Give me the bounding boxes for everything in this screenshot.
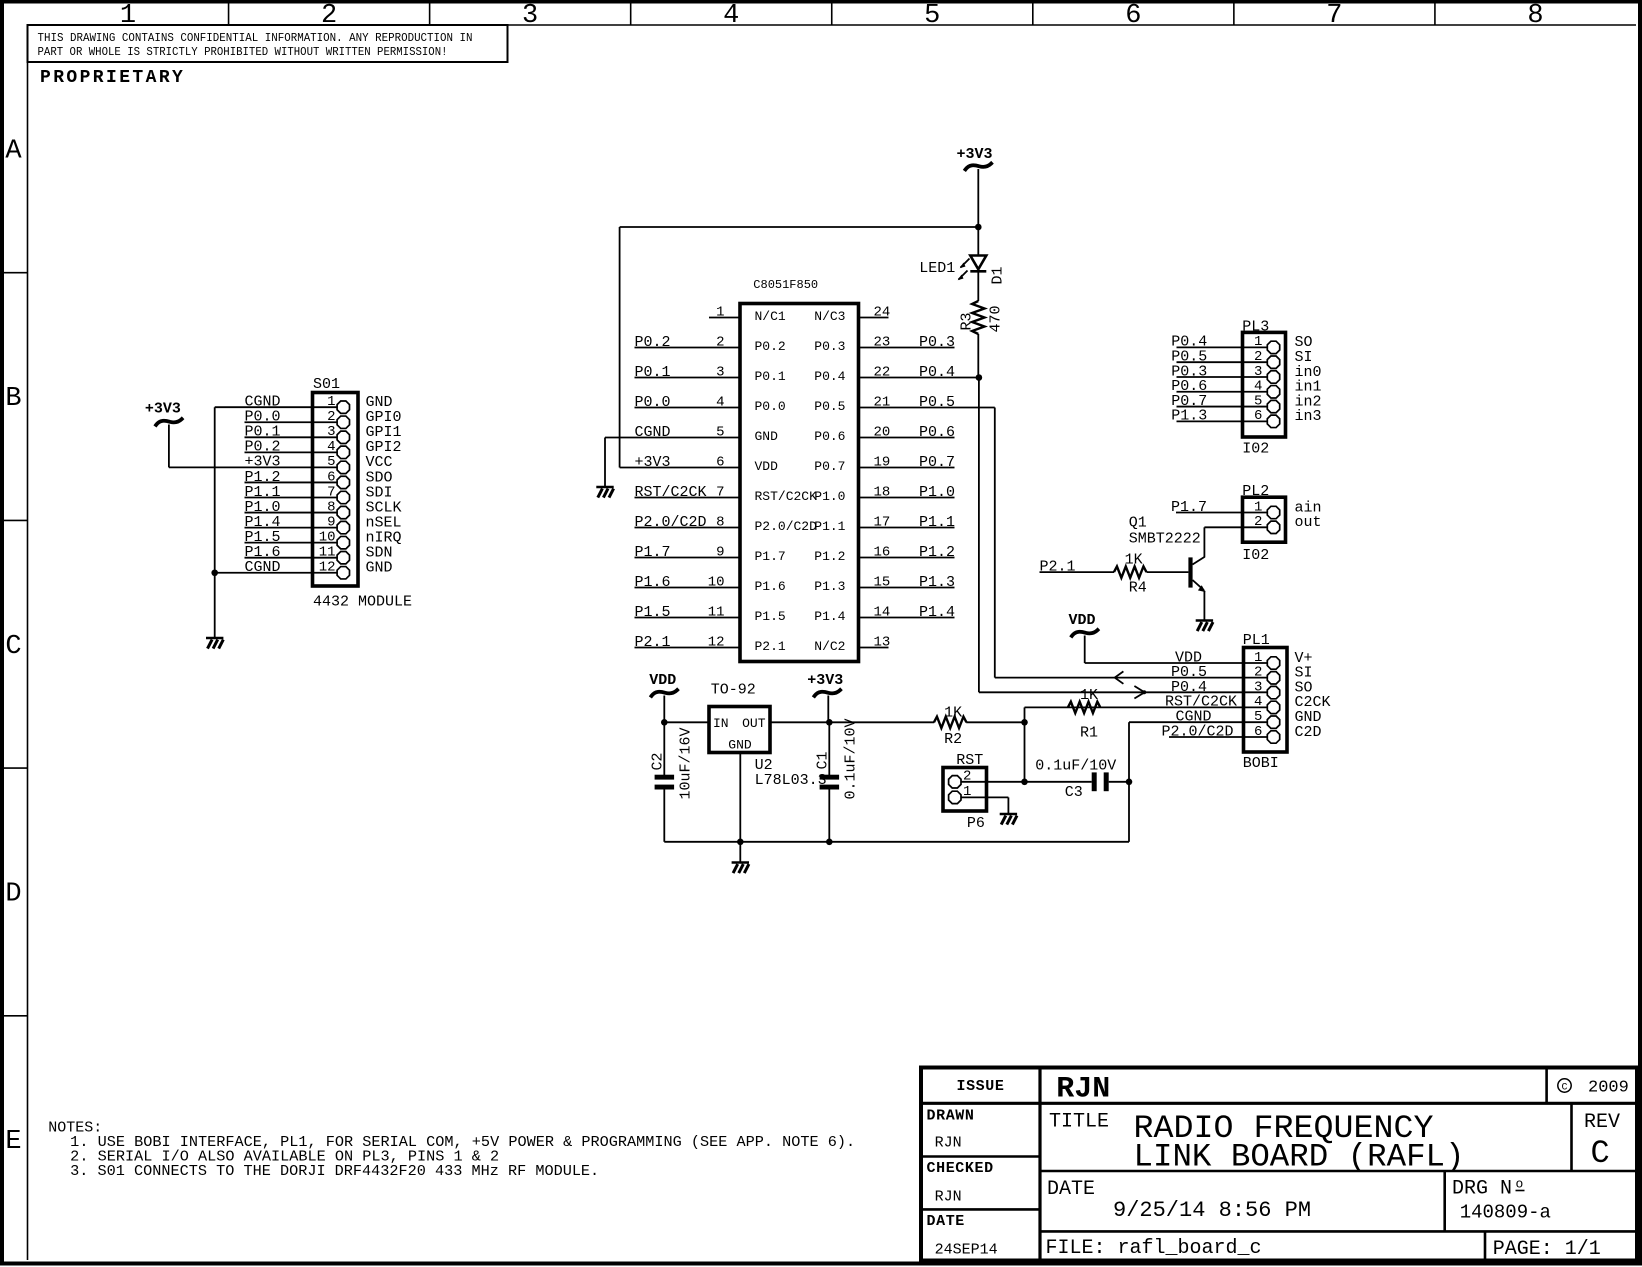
column divider tick 4 [831, 4, 833, 26]
svg-text:P6: P6 [967, 815, 985, 832]
U1 pin 13 labels [814, 634, 890, 654]
wire CGND vertical (S01) [214, 407, 216, 638]
column divider tick 7 [1434, 4, 1436, 26]
S01 pin 10 [245, 529, 402, 549]
svg-text:P0.7: P0.7 [814, 459, 845, 474]
svg-text:1K: 1K [944, 704, 962, 721]
svg-text:P2.1: P2.1 [755, 639, 786, 654]
svg-text:P0.5: P0.5 [919, 394, 955, 411]
svg-text:IN: IN [713, 716, 729, 731]
PL1 pin 3 [1171, 679, 1313, 699]
svg-text:R3: R3 [959, 312, 976, 330]
svg-text:PART OR WHOLE IS STRICTLY PROH: PART OR WHOLE IS STRICTLY PROHIBITED WIT… [38, 45, 448, 59]
S01 pin 12 [245, 559, 393, 579]
DATE cell (drawing) [1047, 1178, 1311, 1223]
node CGND junction (S01 pin12) [211, 569, 218, 576]
wire RST/C2CK net to PL1 pin4 [1025, 706, 1244, 708]
column divider tick 3 [630, 4, 632, 26]
svg-text:3: 3 [1254, 364, 1262, 380]
svg-text:P1.7: P1.7 [635, 544, 671, 561]
column divider tick 6 [1233, 4, 1235, 26]
svg-text:+3V3: +3V3 [957, 146, 993, 163]
svg-text:RJN: RJN [1056, 1073, 1110, 1107]
svg-text:3: 3 [716, 364, 724, 380]
wire U1 pin 4 net P0.0 [635, 407, 741, 409]
S01 pin 9 [245, 514, 402, 534]
svg-text:GND: GND [755, 429, 779, 444]
U1 pin 20 labels [814, 424, 955, 444]
svg-text:5: 5 [924, 1, 940, 31]
svg-text:2: 2 [963, 769, 971, 785]
svg-text:P0.2: P0.2 [635, 334, 671, 351]
PL1 pin 2 [1171, 664, 1313, 684]
svg-text:P1.2: P1.2 [919, 544, 955, 561]
svg-text:P1.3: P1.3 [1171, 408, 1207, 425]
svg-text:11: 11 [319, 545, 336, 561]
svg-text:E: E [5, 1127, 21, 1157]
wire U1 pin 18 net P1.0 [859, 497, 955, 499]
wire R4 to Q1 base [1147, 571, 1189, 573]
resistor R1 1K [1068, 687, 1100, 742]
wire PL3 pin 3 net P0.3 [1177, 376, 1269, 378]
svg-text:TO-92: TO-92 [711, 682, 756, 699]
svg-text:2: 2 [321, 1, 337, 31]
svg-text:10: 10 [319, 529, 336, 545]
svg-text:P0.1: P0.1 [755, 369, 786, 384]
title block outer border [921, 1068, 1637, 1261]
wire stub U1 pin 24 [859, 317, 889, 319]
svg-text:P1.4: P1.4 [919, 604, 955, 621]
wire PL3 pin 6 net P1.3 [1177, 420, 1269, 422]
wire U1 pin 9 net P1.7 [635, 557, 741, 559]
DRG No cell [1452, 1177, 1551, 1224]
DRAWN cell [927, 1108, 975, 1152]
wire S01 pin 6 net P1.2 [245, 481, 338, 483]
U1 pin 6 labels [635, 454, 779, 474]
wire stub U1 pin 13 [859, 647, 889, 649]
svg-text:N/C3: N/C3 [814, 309, 845, 324]
title block grid lines [921, 1068, 1637, 1261]
U1 pin 11 labels [635, 604, 786, 624]
svg-text:5: 5 [327, 454, 335, 470]
wire CGND to PL1 pin5 [1129, 721, 1244, 723]
svg-text:6: 6 [1125, 1, 1141, 31]
svg-text:REV: REV [1584, 1111, 1620, 1134]
PL2 pin 1 [1171, 499, 1322, 519]
U1 pin 19 labels [814, 454, 955, 474]
wire S01 pin1 CGND [215, 406, 337, 408]
arrow left on P0.5 wire [1115, 671, 1124, 683]
svg-text:DRG N: DRG N [1452, 1178, 1512, 1201]
wire P0.5 vertical to PL1 [994, 408, 996, 678]
wire +3V3 to LED [977, 227, 979, 256]
U1 pin 18 labels [814, 484, 955, 504]
wire C2 bottom to rail [663, 790, 665, 842]
svg-text:C8051F850: C8051F850 [753, 278, 818, 292]
S01 pin 4 [245, 439, 402, 459]
svg-text:7: 7 [1326, 1, 1342, 31]
wire P6 pin1 to ground [955, 797, 1009, 813]
S01 pin 1 [245, 394, 393, 414]
connector PL1 body [1243, 632, 1287, 752]
wire U1 pin 8 net P2.0/C2D [635, 527, 741, 529]
VDD power symbol (PL1) [1069, 612, 1098, 663]
svg-text:in3: in3 [1295, 408, 1322, 425]
wire P0.4 horizontal to PL1 pin3 [979, 691, 1244, 693]
svg-text:FILE: rafl_board_c: FILE: rafl_board_c [1046, 1237, 1262, 1260]
PL1 pin 1 [1175, 649, 1313, 669]
wire PL2 pin2 from Q1 [1204, 526, 1268, 528]
svg-text:6: 6 [327, 469, 335, 485]
connector S01 body [313, 376, 359, 586]
svg-text:15: 15 [874, 574, 891, 590]
inner frame line right of row letters [27, 25, 29, 1260]
svg-text:P1.1: P1.1 [814, 519, 845, 534]
wire S01 pin 8 net P1.0 [245, 512, 338, 514]
S01 pin 7 [245, 484, 393, 504]
PL3 pin 2 [1171, 348, 1312, 368]
resistor R4 1K [1114, 551, 1147, 596]
svg-text:C: C [1591, 1135, 1610, 1172]
PL3 pin 3 [1171, 363, 1321, 383]
inner frame line below column numbers [28, 24, 1637, 26]
row divider tick 4 [4, 1015, 28, 1017]
wire PL2 pin1 net P1.7 [1176, 512, 1268, 514]
svg-text:19: 19 [874, 454, 891, 470]
node +3V3 junction [975, 224, 982, 231]
PL1 pin 4 [1165, 694, 1331, 714]
svg-text:22: 22 [874, 364, 891, 380]
svg-text:B: B [5, 384, 21, 414]
svg-text:P0.4: P0.4 [919, 364, 955, 381]
PL1 pin 6 [1161, 723, 1321, 743]
wire C1 vertical top [828, 722, 830, 775]
svg-text:12: 12 [708, 634, 725, 650]
svg-text:3. S01 CONNECTS TO THE DORJI D: 3. S01 CONNECTS TO THE DORJI DRF4432F20 … [70, 1163, 599, 1180]
capacitor C2 10uF/16V [650, 727, 695, 799]
wire U1 pin 14 net P1.4 [859, 617, 955, 619]
wire +3V3 to S01 pin5 [169, 466, 337, 468]
svg-text:7: 7 [716, 484, 724, 500]
svg-text:24SEP14: 24SEP14 [935, 1242, 998, 1259]
svg-text:8: 8 [327, 499, 335, 515]
wire P0.4 vertical to PL1 [978, 378, 980, 693]
svg-text:P0.1: P0.1 [635, 364, 671, 381]
svg-text:P2.1: P2.1 [1040, 558, 1076, 575]
wire U1 pin 2 net P0.2 [635, 347, 741, 349]
svg-text:140809-a: 140809-a [1460, 1202, 1551, 1224]
svg-text:A: A [5, 136, 22, 166]
svg-text:RJN: RJN [935, 1135, 962, 1152]
connector PL2 body [1242, 483, 1285, 542]
U1 pin 1 labels [716, 304, 786, 324]
svg-text:R2: R2 [944, 731, 962, 748]
node P0.4 junction [976, 374, 983, 381]
svg-text:2: 2 [1254, 349, 1262, 365]
svg-text:OUT: OUT [742, 716, 766, 731]
wire P2.1 to R4 [1040, 571, 1115, 573]
wire VDD to U2 IN [664, 721, 709, 723]
svg-text:N/C2: N/C2 [814, 639, 845, 654]
wire PL3 pin 2 net P0.5 [1177, 361, 1269, 363]
svg-text:11: 11 [708, 604, 725, 620]
wire U1 pin 6 +3V3 [620, 467, 740, 469]
ground (S01) [206, 638, 223, 649]
bottom ground rail [664, 841, 1129, 843]
svg-text:P2.0/C2D: P2.0/C2D [635, 514, 707, 531]
svg-text:VDD: VDD [649, 672, 676, 689]
S01 pin 3 [245, 424, 402, 444]
notes text [48, 1120, 855, 1180]
svg-text:o: o [1516, 1177, 1524, 1192]
svg-text:21: 21 [874, 394, 891, 410]
svg-text:14: 14 [874, 604, 891, 620]
U1 pin 17 labels [814, 514, 955, 534]
resistor R2 1K [934, 704, 967, 748]
wire U1 pin 12 net P2.1 [635, 647, 741, 649]
node U2 GND junction [737, 839, 744, 846]
svg-text:3: 3 [327, 424, 335, 440]
wire R3 to P0.4 [977, 334, 979, 378]
svg-text:16: 16 [874, 544, 891, 560]
svg-text:7: 7 [327, 484, 335, 500]
svg-text:GND: GND [366, 560, 393, 577]
wire P6 pin2 to RST node [955, 781, 1025, 783]
VDD power symbol (U2) [649, 672, 677, 722]
PL3 pin 4 [1171, 378, 1321, 398]
svg-text:4432 MODULE: 4432 MODULE [313, 594, 412, 611]
wire S01 pin 11 net P1.6 [245, 557, 338, 559]
svg-text:P1.0: P1.0 [814, 489, 845, 504]
svg-text:1: 1 [963, 784, 971, 800]
CHECKED cell [927, 1160, 994, 1205]
svg-text:4: 4 [1254, 379, 1262, 395]
P6 pin 1 [949, 784, 972, 803]
U1 pin 2 labels [635, 334, 786, 354]
svg-text:DATE: DATE [927, 1213, 965, 1230]
wire U1 pin 7 net RST/C2CK [635, 497, 741, 499]
svg-text:D: D [5, 879, 21, 909]
svg-text:D1: D1 [990, 266, 1007, 284]
svg-text:2: 2 [1254, 514, 1262, 530]
row divider tick 1 [4, 272, 28, 274]
svg-text:P1.3: P1.3 [919, 574, 955, 591]
node RST junction (C3) [1021, 779, 1028, 786]
svg-text:P1.6: P1.6 [635, 574, 671, 591]
svg-text:P0.0: P0.0 [755, 399, 786, 414]
svg-text:9: 9 [327, 514, 335, 530]
svg-text:RJN: RJN [935, 1188, 962, 1205]
wire PL3 pin 4 net P0.6 [1177, 391, 1269, 393]
svg-text:I02: I02 [1242, 441, 1269, 458]
wire C1 bottom to rail [828, 790, 830, 842]
wire U1 pin 22 P0.4 [859, 377, 979, 379]
node RST junction (R2) [1021, 719, 1028, 726]
P6 pin 2 [949, 769, 972, 788]
svg-text:+3V3: +3V3 [807, 672, 843, 689]
transistor Q1 SMBT2222 [1129, 515, 1206, 620]
U1 pin 12 labels [635, 634, 786, 654]
wire P0.5 horizontal to PL1 pin2 [995, 677, 1244, 679]
svg-text:2009: 2009 [1588, 1079, 1629, 1098]
svg-text:1: 1 [1254, 334, 1262, 350]
svg-text:12: 12 [319, 560, 336, 576]
svg-text:1K: 1K [1080, 687, 1098, 704]
svg-text:1: 1 [1254, 499, 1262, 515]
copyright 2009 [1558, 1079, 1629, 1098]
svg-text:+3V3: +3V3 [145, 401, 181, 418]
U1 pin 16 labels [814, 544, 955, 564]
svg-text:1: 1 [120, 1, 136, 31]
svg-text:10: 10 [708, 574, 725, 590]
svg-text:5: 5 [1254, 393, 1262, 409]
U1 pin 24 labels [814, 304, 890, 324]
svg-text:C: C [1561, 1082, 1567, 1093]
wire U1 pin 11 net P1.5 [635, 617, 741, 619]
svg-text:C3: C3 [1065, 784, 1083, 801]
node C1 rail junction [826, 839, 833, 846]
connector PL3 body [1242, 319, 1285, 438]
svg-text:1K: 1K [1125, 551, 1143, 568]
svg-text:4: 4 [723, 1, 739, 31]
svg-text:R1: R1 [1080, 725, 1098, 742]
svg-text:VDD: VDD [1069, 612, 1096, 629]
svg-text:470: 470 [988, 305, 1005, 332]
svg-text:0.1uF/10V: 0.1uF/10V [843, 718, 860, 799]
svg-text:17: 17 [874, 514, 891, 530]
svg-text:P0.3: P0.3 [814, 339, 845, 354]
wire S01 pin 3 net P0.1 [245, 436, 338, 438]
svg-text:I02: I02 [1242, 547, 1269, 564]
node VDD junction (C2/U2) [661, 719, 668, 726]
U1 pin 14 labels [814, 604, 955, 624]
wire RST vertical [1024, 707, 1026, 781]
svg-text:P1.5: P1.5 [635, 604, 671, 621]
wire pad stubs PL1 [1244, 663, 1269, 737]
TITLE cell [1049, 1110, 1465, 1176]
svg-text:DRAWN: DRAWN [927, 1108, 975, 1125]
svg-text:P0.3: P0.3 [919, 334, 955, 351]
svg-text:P0.6: P0.6 [919, 424, 955, 441]
node +3V3 junction (C1) [826, 719, 833, 726]
U1 pin 3 labels [635, 364, 786, 384]
svg-text:CHECKED: CHECKED [927, 1160, 994, 1177]
wire U1 pin 23 net P0.3 [859, 347, 955, 349]
wire U1 pin 15 net P1.3 [859, 587, 955, 589]
svg-text:out: out [1295, 514, 1322, 531]
regulator U2 L78L03.3 body [709, 682, 827, 790]
U1 pin 5 labels [635, 424, 779, 444]
wire U1 pin 20 net P0.6 [859, 437, 955, 439]
svg-text:C2D: C2D [1295, 724, 1322, 741]
svg-text:18: 18 [874, 484, 891, 500]
svg-text:P0.7: P0.7 [919, 454, 955, 471]
S01 pin 5 [245, 454, 393, 474]
wire U1 pin 3 net P0.1 [635, 377, 741, 379]
node CGND junction (C3) [1126, 779, 1133, 786]
S01 pin 8 [245, 499, 402, 519]
svg-text:TITLE: TITLE [1049, 1111, 1109, 1134]
U1 pin 4 labels [635, 394, 786, 414]
svg-text:8: 8 [1527, 1, 1543, 31]
wire U1 pin 21 P0.5 [859, 407, 995, 409]
wire VDD to PL1 pin1 [1085, 662, 1244, 664]
svg-text:LINK BOARD (RAFL): LINK BOARD (RAFL) [1134, 1139, 1465, 1176]
svg-text:4: 4 [716, 394, 724, 410]
wire CGND vertical to ground (U1 pin5) [604, 438, 606, 487]
svg-text:P2.1: P2.1 [635, 634, 671, 651]
svg-text:P0.0: P0.0 [635, 394, 671, 411]
row divider tick 2 [4, 519, 28, 521]
svg-text:23: 23 [874, 334, 891, 350]
svg-text:CGND: CGND [635, 424, 671, 441]
svg-text:P1.1: P1.1 [919, 514, 955, 531]
connector P6 RST body [943, 752, 987, 811]
column divider tick 5 [1032, 4, 1034, 26]
svg-text:10uF/16V: 10uF/16V [678, 727, 695, 799]
wire S01 pin 9 net P1.4 [245, 527, 338, 529]
wire OUT to R2 [829, 721, 934, 723]
+3V3 power symbol (S01) [145, 401, 182, 468]
PL3 pin 5 [1171, 393, 1321, 413]
svg-text:+3V3: +3V3 [635, 454, 671, 471]
U1 pin 23 labels [814, 334, 955, 354]
U1 pin 8 labels [635, 514, 818, 534]
ground (U1 CGND) [596, 487, 613, 498]
PL3 pin 6 [1171, 408, 1321, 428]
svg-text:P1.5: P1.5 [755, 609, 786, 624]
column divider tick 2 [429, 4, 431, 26]
IC U1 C8051F850 body [740, 278, 859, 662]
ground (U2) [732, 863, 749, 874]
svg-text:0.1uF/10V: 0.1uF/10V [1035, 758, 1116, 775]
svg-text:8: 8 [716, 514, 724, 530]
PL3 pin 1 [1171, 334, 1312, 354]
U1 pin 10 labels [635, 574, 786, 594]
DATE cell (left) [927, 1213, 998, 1259]
ground (Q1 emitter) [1196, 621, 1213, 632]
svg-text:N/C1: N/C1 [755, 309, 786, 324]
REV cell [1584, 1111, 1620, 1172]
confidential notice text [38, 31, 473, 59]
svg-text:LED1: LED1 [919, 260, 955, 277]
svg-text:R4: R4 [1129, 579, 1147, 596]
wire U1 pin 10 net P1.6 [635, 587, 741, 589]
capacitor C3 0.1uF/10V [1035, 758, 1116, 802]
svg-text:ISSUE: ISSUE [956, 1078, 1004, 1095]
svg-text:P1.3: P1.3 [814, 579, 845, 594]
wire S01 pin 10 net P1.5 [245, 542, 338, 544]
svg-text:Q1: Q1 [1129, 515, 1147, 532]
svg-text:2: 2 [716, 334, 724, 350]
U1 pin 15 labels [814, 574, 955, 594]
svg-text:4: 4 [327, 439, 335, 455]
svg-text:1: 1 [327, 394, 335, 410]
S01 pin 6 [245, 469, 393, 489]
svg-text:1: 1 [716, 304, 724, 320]
wire U1 pin 17 net P1.1 [859, 527, 955, 529]
wire C3 to CGND node [1109, 781, 1129, 783]
S01 pin 2 [245, 409, 402, 429]
capacitor C1 0.1uF/10V [815, 718, 860, 799]
wire PL3 pin 1 net P0.4 [1177, 346, 1269, 348]
wire U2 GND stem [739, 753, 741, 863]
+3V3 power symbol (U2 out) [807, 672, 843, 722]
svg-text:THIS DRAWING CONTAINS CONFIDEN: THIS DRAWING CONTAINS CONFIDENTIAL INFOR… [38, 31, 473, 45]
U1 pin 22 labels [814, 364, 955, 384]
wire U1 pin 19 net P0.7 [859, 467, 955, 469]
svg-text:6: 6 [1254, 408, 1262, 424]
